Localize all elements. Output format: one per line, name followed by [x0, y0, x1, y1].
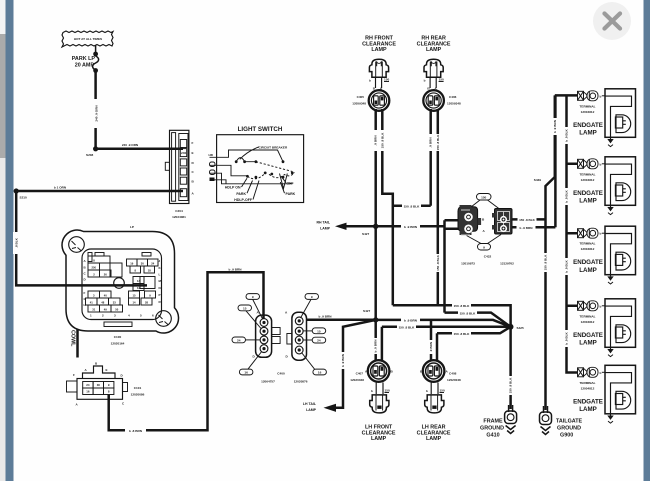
wire RH rear right: [437, 109, 440, 305]
svg-text:24: 24: [151, 262, 154, 266]
connector C405: [369, 90, 390, 111]
connector C204: [165, 130, 194, 219]
svg-text:TAILGATE: TAILGATE: [556, 419, 583, 425]
wire RH rear left: [429, 109, 432, 206]
svg-text:9: 9: [252, 295, 254, 299]
svg-text:F: F: [73, 373, 75, 377]
wire S210 to C204 pin A: [16, 190, 183, 193]
svg-text:150 .8 BLK: 150 .8 BLK: [460, 311, 477, 315]
svg-text:S427: S427: [363, 309, 371, 313]
wire to RH tail lamp: [346, 225, 445, 228]
C432 left connector: [458, 207, 478, 231]
endgate lamp 3: [573, 226, 635, 284]
svg-text:240 .9 ORN: 240 .9 ORN: [122, 143, 139, 147]
svg-text:P: P: [159, 293, 161, 297]
connector C408: [423, 360, 445, 382]
svg-text:9: 9: [483, 246, 485, 250]
svg-text:S208: S208: [86, 153, 94, 157]
svg-text:150 .8 BLK: 150 .8 BLK: [519, 218, 536, 222]
svg-text:41: 41: [90, 301, 93, 305]
svg-text:150: 150: [481, 196, 486, 200]
svg-text:26: 26: [104, 273, 107, 277]
wire C432 BLK out: [512, 218, 546, 221]
svg-text:20 AMP: 20 AMP: [75, 63, 95, 69]
callout ovals left: [232, 294, 263, 375]
splice S427 lower: [373, 317, 378, 322]
wire S425 to frame ground: [509, 327, 512, 409]
svg-text:14: 14: [133, 301, 136, 305]
tailgate ground G900: [540, 406, 583, 439]
svg-text:F: F: [192, 141, 194, 145]
pin letters: [84, 259, 162, 318]
wire LH rear pair: [430, 320, 433, 361]
svg-text:b .9 BRN: b .9 BRN: [229, 267, 243, 271]
cowl stub wire: [76, 330, 79, 358]
svg-text:C432: C432: [484, 255, 492, 259]
svg-text:12034081: 12034081: [172, 215, 186, 219]
svg-text:LAMP: LAMP: [306, 408, 317, 412]
svg-text:b .9 BRN: b .9 BRN: [404, 319, 418, 323]
wire into S425 line1: [393, 305, 511, 327]
circuit breaker: [236, 158, 256, 162]
oval 9: [478, 244, 491, 251]
svg-text:b: b: [371, 389, 373, 393]
svg-text:.9 BRN: .9 BRN: [429, 137, 433, 148]
fuse PARK LP 20 AMP: [72, 46, 99, 73]
svg-text:HDLP-OFF: HDLP-OFF: [234, 198, 253, 202]
connector C400 right half: [261, 294, 326, 384]
lamp bulb: [376, 383, 383, 395]
wire into S425 line4: [382, 326, 511, 329]
svg-text:12010973: 12010973: [461, 262, 475, 266]
svg-text:LAMP: LAMP: [320, 227, 331, 231]
svg-text:LAMP: LAMP: [371, 436, 387, 442]
svg-text:CIRCUIT BREAKER: CIRCUIT BREAKER: [259, 145, 288, 149]
svg-text:.8 BLK: .8 BLK: [14, 237, 18, 248]
svg-text:G900: G900: [560, 433, 573, 439]
close button: [593, 2, 631, 40]
V contact: [280, 174, 288, 189]
connector C101: [67, 362, 145, 407]
right blue bar: [644, 0, 650, 481]
svg-text:12020164: 12020164: [111, 342, 125, 346]
svg-text:15: 15: [243, 307, 247, 311]
left scrollbar track: [0, 0, 6, 481]
svg-text:15: 15: [317, 329, 321, 333]
svg-text:C406: C406: [449, 95, 457, 99]
svg-text:LAMP: LAMP: [426, 436, 442, 442]
svg-text:RH TAIL: RH TAIL: [316, 221, 330, 225]
C100 body with corner lobes: [62, 230, 178, 333]
svg-text:b .9 BRN: b .9 BRN: [341, 353, 345, 367]
tailgate ground wire: [546, 95, 555, 410]
connector C406: [423, 90, 444, 111]
endgate lamp 4: [573, 299, 635, 357]
wire S210 down to C100: [16, 191, 147, 285]
svg-text:S425: S425: [517, 326, 525, 330]
svg-text:150 .8 BLK: 150 .8 BLK: [404, 205, 421, 209]
svg-text:C100: C100: [114, 335, 122, 339]
callout ovals right: [301, 294, 327, 375]
svg-text:150: 150: [384, 78, 389, 82]
svg-text:240 .9 ORN: 240 .9 ORN: [94, 105, 98, 122]
endgate lamp 2: [573, 157, 635, 215]
svg-text:12020048: 12020048: [350, 378, 364, 382]
endgate bus: [567, 95, 578, 372]
svg-text:150 .8 BLK: 150 .8 BLK: [454, 304, 471, 308]
svg-text:C204: C204: [175, 209, 183, 213]
svg-text:GROUND: GROUND: [480, 426, 504, 432]
svg-text:OFF: OFF: [287, 182, 295, 186]
svg-text:S210: S210: [20, 196, 28, 200]
svg-text:240: 240: [181, 151, 186, 155]
svg-text:40: 40: [104, 294, 107, 298]
svg-text:b: b: [426, 389, 428, 393]
wire C400 to S427 junction: [307, 318, 376, 321]
C432 right connector: [495, 209, 513, 235]
svg-text:C400: C400: [277, 372, 285, 376]
C100 inner shell: [82, 249, 162, 320]
svg-text:12129762: 12129762: [500, 262, 514, 266]
svg-text:150 .8 BLK: 150 .8 BLK: [436, 134, 440, 151]
connector C432 assembly: [458, 194, 514, 266]
wire C432 BRN out: [512, 226, 555, 229]
svg-text:12020086: 12020086: [131, 393, 145, 397]
svg-text:b .9 BRN: b .9 BRN: [520, 226, 534, 230]
svg-text:150 .8 BLK: 150 .8 BLK: [399, 326, 416, 330]
splice S210: [14, 188, 19, 193]
endgate lamp 5: [573, 365, 635, 423]
svg-text:16: 16: [86, 390, 90, 394]
LH rear clearance lamp: [417, 360, 461, 442]
svg-text:30: 30: [141, 262, 144, 266]
svg-text:150 .8 BLK: 150 .8 BLK: [544, 254, 548, 271]
svg-text:S427: S427: [362, 232, 370, 236]
wire RH front BRN feed bus: [374, 109, 377, 320]
wire C432 feed riser: [445, 220, 461, 312]
svg-text:b: b: [369, 79, 371, 83]
svg-text:G410: G410: [486, 433, 499, 439]
splice S427: [373, 224, 378, 229]
splice S208: [93, 146, 98, 151]
svg-text:F: F: [84, 291, 86, 295]
svg-text:LH TAIL: LH TAIL: [303, 402, 317, 406]
RH front clearance lamp: [352, 36, 396, 111]
bolt circle BR: [156, 311, 172, 327]
oval 150: [477, 194, 492, 201]
svg-text:PARK LP: PARK LP: [72, 56, 96, 62]
svg-text:LIGHT SWITCH: LIGHT SWITCH: [238, 126, 283, 133]
wire RH front BLK: [382, 109, 393, 305]
svg-text:COWL: COWL: [70, 330, 76, 347]
svg-text:L: L: [159, 273, 161, 277]
svg-text:.9 BRN: .9 BRN: [429, 341, 433, 352]
connector C407: [368, 360, 390, 382]
svg-text:250: 250: [92, 266, 97, 270]
svg-text:b .9 BRN: b .9 BRN: [553, 119, 557, 133]
svg-text:13: 13: [137, 279, 140, 283]
svg-text:12020048: 12020048: [447, 378, 461, 382]
light switch: [209, 126, 304, 203]
svg-text:19: 19: [130, 262, 133, 266]
svg-text:12020876: 12020876: [294, 380, 308, 384]
wire into S425 line2: [445, 313, 511, 327]
svg-text:b .9 BLK: b .9 BLK: [565, 331, 569, 344]
svg-text:H: H: [84, 303, 86, 307]
center bolt: [114, 278, 125, 289]
svg-text:b .9 BLK: b .9 BLK: [565, 189, 569, 202]
svg-text:9: 9: [311, 295, 313, 299]
endgate branch 1: [555, 94, 578, 97]
svg-text:31: 31: [92, 308, 95, 312]
svg-text:24: 24: [237, 339, 241, 343]
wire into S425 line5: [437, 327, 511, 334]
svg-text:12064757: 12064757: [261, 380, 275, 384]
svg-text:150 .8 BLK: 150 .8 BLK: [380, 132, 384, 149]
switch contacts: [235, 160, 238, 163]
svg-text:FRAME: FRAME: [483, 419, 503, 425]
svg-text:150 .8 BLK: 150 .8 BLK: [436, 254, 440, 271]
lamp housing: [369, 59, 388, 77]
wire RH rear BLK crossover: [393, 205, 431, 208]
svg-text:16: 16: [318, 371, 322, 375]
svg-text:E: E: [106, 368, 108, 372]
bulkhead connector C100: [62, 225, 178, 346]
svg-text:24: 24: [317, 339, 321, 343]
svg-text:C101: C101: [134, 386, 142, 390]
RH rear clearance lamp: [417, 36, 461, 111]
svg-text:b .8 BRN: b .8 BRN: [129, 429, 143, 433]
svg-text:12059348: 12059348: [352, 102, 366, 106]
wire into S425 line3 BRN: [376, 320, 511, 327]
svg-text:b .9 BRN: b .9 BRN: [374, 339, 378, 353]
svg-text:S439: S439: [534, 178, 542, 182]
svg-text:GROUND: GROUND: [557, 426, 581, 432]
svg-text:b: b: [424, 79, 426, 83]
wire LH front pair: [374, 320, 377, 361]
svg-text:49: 49: [104, 308, 107, 312]
pin grid left cluster: [86, 256, 123, 312]
svg-text:16: 16: [244, 371, 248, 375]
svg-text:C407: C407: [356, 372, 364, 376]
wire S208 to C204 pin E: [96, 148, 183, 151]
hot at all times box: [62, 31, 113, 47]
svg-text:18: 18: [148, 269, 151, 273]
endgate feed riser: [554, 95, 557, 227]
svg-text:12: 12: [137, 286, 140, 290]
connector C400 left half: [232, 294, 280, 375]
svg-text:30: 30: [97, 383, 101, 387]
svg-text:150: 150: [385, 389, 390, 393]
LH front clearance lamp: [350, 360, 396, 442]
svg-text:48: 48: [101, 301, 104, 305]
svg-text:LP: LP: [130, 225, 134, 229]
endgate lamp 1: [573, 89, 635, 147]
wire to LH tail lamp: [336, 320, 376, 408]
frame ground G410: [480, 405, 517, 439]
svg-text:HD: HD: [209, 153, 214, 157]
svg-text:150: 150: [440, 389, 445, 393]
pin numbers: [90, 259, 155, 312]
svg-text:b .9 BLK: b .9 BLK: [565, 259, 569, 272]
svg-text:150 .8 BLK: 150 .8 BLK: [454, 332, 471, 336]
wire C101 to C400 pin A: [109, 272, 264, 430]
svg-text:E: E: [192, 151, 194, 155]
wire fuse to S208: [94, 71, 97, 149]
splice S425: [508, 324, 514, 330]
lamp bulb: [431, 383, 438, 395]
svg-text:PARK: PARK: [286, 192, 296, 196]
svg-text:15: 15: [133, 294, 136, 298]
dashed wiper lines: [256, 162, 292, 172]
svg-text:50: 50: [115, 308, 118, 312]
svg-text:N: N: [159, 286, 161, 290]
top slots: [95, 253, 104, 257]
svg-text:LAMP: LAMP: [371, 47, 387, 53]
svg-text:C405: C405: [357, 95, 365, 99]
svg-text:b 1 ORN: b 1 ORN: [54, 186, 67, 190]
svg-text:12059348: 12059348: [447, 102, 461, 106]
svg-text:b .9 BRN: b .9 BRN: [404, 225, 418, 229]
svg-text:HOT AT ALL TIMES: HOT AT ALL TIMES: [74, 37, 102, 41]
pin grid right cluster: [127, 259, 159, 305]
svg-text:PARK: PARK: [236, 192, 246, 196]
bolt circle TL: [69, 237, 85, 253]
svg-text:LAMP: LAMP: [426, 47, 442, 53]
svg-text:C408: C408: [449, 372, 457, 376]
svg-text:b .9 BLK: b .9 BLK: [565, 128, 569, 141]
left blue bar: [6, 0, 14, 481]
svg-text:.9 BRN: .9 BRN: [374, 135, 378, 146]
svg-text:28: 28: [145, 301, 148, 305]
svg-text:24: 24: [86, 383, 90, 387]
svg-text:HDLP ON: HDLP ON: [225, 186, 241, 190]
svg-text:33: 33: [113, 301, 116, 305]
svg-text:b .9 BRN: b .9 BRN: [319, 315, 333, 319]
svg-text:150 .8 BLK: 150 .8 BLK: [509, 377, 513, 394]
svg-text:150: 150: [439, 78, 444, 82]
switch feed stubs: [210, 150, 284, 162]
